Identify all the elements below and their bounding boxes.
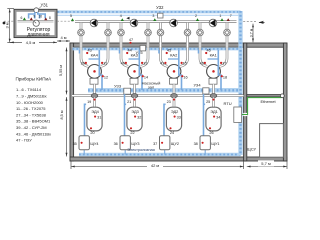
svg-text:22: 22 (130, 131, 134, 135)
wall gap for ethernet cable (243, 113, 247, 116)
svg-text:ЭД4: ЭД4 (91, 109, 99, 114)
svg-text:27...34 - ТХ5638: 27...34 - ТХ5638 (16, 112, 47, 117)
svg-text:11...26 - ТХ2075: 11...26 - ТХ2075 (16, 106, 46, 111)
svg-text:Приборы КИПиА: Приборы КИПиА (16, 76, 53, 81)
svg-text:19: 19 (87, 100, 91, 104)
svg-text:5: 5 (70, 14, 72, 18)
svg-text:КА1: КА1 (210, 53, 218, 58)
svg-text:2: 2 (195, 14, 197, 18)
svg-text:25: 25 (206, 100, 210, 104)
wire: right cable drop over walls (238, 11, 242, 155)
svg-text:КА2: КА2 (170, 53, 178, 58)
svg-text:ЩУ1: ЩУ1 (211, 142, 219, 146)
electrolyzer vessel ЭД4 (84, 104, 86, 137)
svg-text:7...9 - ДМ5011Вх: 7...9 - ДМ5011Вх (16, 94, 47, 99)
valve at x=148.0 (145, 29, 152, 36)
svg-text:6: 6 (21, 16, 23, 20)
svg-text:33: 33 (177, 115, 181, 119)
svg-text:47 - ПЗУ: 47 - ПЗУ (16, 138, 32, 143)
svg-text:31: 31 (97, 115, 101, 119)
sensor 4 (121, 18, 124, 21)
regulator room walls (14, 9, 57, 37)
svg-text:4: 4 (120, 14, 122, 18)
svg-text:16: 16 (183, 76, 187, 80)
pipe: dashed continuation right (243, 20, 256, 22)
svg-text:42 м: 42 м (151, 163, 160, 168)
valve at x=121.0 (118, 29, 125, 36)
svg-text:4,5 м: 4,5 м (26, 40, 36, 45)
electrolyzer vessel ЭД3 (124, 94, 126, 136)
building left wall (70, 43, 74, 161)
pump P1 on header (90, 19, 98, 27)
svg-text:Электролизная: Электролизная (127, 147, 155, 152)
svg-text:36: 36 (114, 142, 118, 146)
control cabinet ЩУ2 (164, 150, 166, 155)
svg-text:УЗ4: УЗ4 (193, 82, 201, 87)
sensor 8 (maroon) (44, 17, 47, 20)
svg-text:УЗ1: УЗ1 (41, 2, 49, 7)
svg-text:КА3: КА3 (131, 53, 139, 58)
valve at x=200.0 (197, 29, 204, 36)
svg-text:УЗ3: УЗ3 (114, 84, 122, 89)
svg-text:5,7 м: 5,7 м (261, 161, 271, 166)
pump P3 on header (170, 19, 178, 27)
pump P4 on header (209, 19, 217, 27)
wire: Ethernet cable (green) (242, 98, 282, 115)
svg-text:20: 20 (90, 131, 94, 135)
dimension 42 m (71, 162, 244, 170)
svg-text:10 - ЮОН2000: 10 - ЮОН2000 (16, 100, 44, 105)
pipe: drop at x=227.0 (226, 23, 229, 48)
pipe: drop at x=108.0 (107, 23, 110, 48)
wire: signal cable right vertical drop (238, 11, 242, 155)
pump P2 on header (130, 19, 138, 27)
building right wall (283, 43, 287, 161)
svg-text:5,55 м: 5,55 м (59, 65, 63, 76)
svg-text:ЭД2: ЭД2 (171, 109, 178, 114)
svg-text:17: 17 (222, 62, 226, 66)
valve at x=81.0 (78, 29, 85, 36)
electrolyzer vessel ЭД2 (163, 104, 165, 137)
pump unit КА4 (81, 47, 88, 66)
wire: cable tray under top wall (73, 47, 241, 50)
svg-text:39: 39 (81, 62, 85, 66)
svg-text:ЩСУ: ЩСУ (247, 147, 257, 152)
svg-text:26: 26 (209, 131, 213, 135)
inner dividing wall (244, 43, 247, 161)
flow arrow right end (259, 21, 265, 24)
pipe: drop at x=160.5 (159, 23, 162, 48)
control cabinet ЩУ4 (83, 150, 85, 155)
electrolyzer vessel ЭД1 (203, 94, 205, 136)
svg-text:47: 47 (129, 38, 133, 42)
svg-text:7: 7 (230, 14, 232, 18)
svg-text:15: 15 (183, 62, 187, 66)
pump unit КА1 (200, 47, 207, 66)
svg-text:3,7 м: 3,7 м (250, 28, 254, 37)
svg-text:42: 42 (200, 62, 204, 66)
pump unit КА3 (121, 47, 128, 66)
pipe inlet arrow left (3, 22, 6, 25)
svg-text:ЭД3: ЭД3 (131, 109, 138, 114)
node: ethernet wall feedthrough (280, 94, 284, 98)
dimension 5,7 m (247, 162, 287, 170)
node: room top device circle (34, 8, 39, 13)
pipe: drop at x=148.0 (147, 23, 150, 48)
svg-text:35: 35 (73, 142, 77, 146)
svg-text:зал: зал (148, 85, 155, 90)
flow arrow on pipe (126, 17, 129, 20)
svg-text:37: 37 (153, 142, 157, 146)
wire: room blue manifold (29, 12, 46, 19)
sensor (maroon) (30, 17, 33, 20)
pipe: drop at x=200.0 (199, 23, 202, 48)
power cabinet ShchSU (260, 124, 284, 158)
valve at x=187.5 (184, 29, 191, 36)
sensor 3 (153, 18, 156, 21)
wire: secondary cable top run (57, 14, 241, 16)
svg-text:40: 40 (121, 62, 125, 66)
dimension 3,7 m (252, 24, 254, 43)
building bottom wall (70, 157, 287, 161)
pipe: drop at x=121.0 (120, 23, 123, 48)
svg-text:9: 9 (33, 15, 35, 19)
sensor 7 (maroon) (227, 18, 230, 21)
wire: signal cable bottom run (79, 153, 241, 156)
svg-text:39...42 - СУР-2М: 39...42 - СУР-2М (16, 125, 47, 130)
svg-text:10: 10 (38, 15, 42, 19)
pipe: main header dashed lead-in (57, 20, 75, 22)
svg-text:11: 11 (103, 62, 107, 66)
pipe: main top header (75, 20, 237, 23)
pipe: mid distribution header (72, 94, 244, 97)
pump unit КА2 (161, 47, 168, 66)
dimension 3 m (7, 9, 14, 43)
partition wall Ethernet room (247, 95, 284, 97)
svg-text:1...6 - ТХ6114: 1...6 - ТХ6114 (16, 87, 42, 92)
pipe: regulator room line (18, 20, 54, 22)
svg-text:34: 34 (216, 115, 220, 119)
svg-text:8,5 м: 8,5 м (60, 110, 64, 119)
sensor 5 (71, 18, 74, 21)
pipe: drop at x=187.5 (186, 23, 189, 48)
svg-text:14: 14 (144, 76, 148, 80)
sensor 2 (196, 18, 199, 21)
svg-text:УЗ2: УЗ2 (156, 5, 164, 10)
svg-text:КА4: КА4 (91, 53, 99, 58)
wire: main signal cable top run (38, 10, 241, 13)
svg-text:ЩУ2: ЩУ2 (171, 142, 179, 146)
svg-text:21: 21 (127, 100, 131, 104)
dimension 8,5 m (66, 97, 68, 157)
dimension 5,55 m (66, 48, 68, 95)
svg-text:23: 23 (167, 100, 171, 104)
pipe: drop at x=81.0 (80, 23, 83, 48)
svg-text:4 м: 4 м (60, 35, 66, 40)
valve at x=160.5 (157, 29, 164, 36)
svg-text:Ethernet: Ethernet (260, 99, 276, 104)
svg-text:ЩУ4: ЩУ4 (90, 142, 98, 146)
svg-text:43...46 - ДМ5011Вх: 43...46 - ДМ5011Вх (16, 131, 51, 136)
svg-text:35...38 - ВВ45ОМ1: 35...38 - ВВ45ОМ1 (16, 119, 51, 124)
control cabinet ЩУ3 (124, 150, 126, 155)
svg-text:13: 13 (143, 62, 147, 66)
sensor 6 (green) (23, 17, 26, 20)
svg-text:41: 41 (160, 62, 164, 66)
building top wall (70, 43, 287, 47)
svg-text:38: 38 (194, 142, 198, 146)
valve at x=227.0 (224, 29, 231, 36)
svg-text:18: 18 (223, 76, 227, 80)
junction box UZ5 (140, 45, 146, 51)
svg-text:3: 3 (152, 14, 154, 18)
valve at x=108.0 (105, 29, 112, 36)
svg-text:12: 12 (104, 76, 108, 80)
svg-text:давления: давления (27, 32, 49, 38)
dimension 4,5 m (10, 41, 57, 43)
wire: signal cable middle band (88, 88, 241, 93)
svg-text:8: 8 (49, 16, 51, 20)
svg-text:RTU: RTU (224, 101, 232, 106)
sensor 1 (220, 18, 223, 21)
svg-text:ЩУ3: ЩУ3 (131, 142, 139, 146)
control cabinet ЩУ1 (204, 150, 206, 155)
svg-text:1: 1 (219, 14, 221, 18)
svg-text:ЭД1: ЭД1 (210, 109, 217, 114)
svg-text:24: 24 (170, 131, 174, 135)
svg-text:32: 32 (137, 115, 141, 119)
